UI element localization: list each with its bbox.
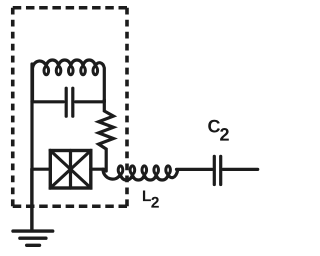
inductor L2 (coil, loops up) (103, 169, 178, 180)
label L2 subscript 2 (151, 197, 158, 208)
label C2 subscript 2 (220, 128, 229, 141)
resistor R1 (zigzag) (99, 100, 114, 171)
capacitor C1 plate 2 (71, 88, 74, 116)
inductor L1 curls (44, 67, 98, 75)
mixer box with X (diode ring) (50, 151, 91, 189)
mixer box center vertical (69, 151, 72, 189)
dashed enclosure box bottom edge (13, 204, 127, 208)
capacitor C1 plate 1 (65, 88, 68, 116)
ground bar 3 (27, 244, 40, 247)
label L2 letter L (143, 190, 151, 201)
ground bar 2 (20, 236, 46, 239)
wire left vertical bus (30, 64, 33, 231)
capacitor C2 plate 2 (219, 156, 222, 184)
mixer box diagonal 2 (50, 151, 91, 189)
dashed enclosure box left edge (11, 8, 15, 207)
label C2 letter C (208, 120, 220, 133)
wire box left (32, 168, 50, 171)
inductor L2 curls (118, 166, 170, 174)
wire box right (91, 168, 104, 171)
mixer box diagonal 1 (50, 151, 91, 189)
ground lead (30, 169, 33, 231)
dashed enclosure box top edge (13, 6, 127, 10)
dashed enclosure box right edge (125, 8, 129, 207)
capacitor C2 right wire (223, 168, 258, 171)
capacitor C1 right wire (76, 100, 105, 103)
capacitor C1 left wire (32, 100, 64, 103)
capacitor C2 plate 1 (213, 156, 216, 184)
wire L2 to C2 (177, 168, 213, 171)
inductor L1 (top coil) (33, 60, 105, 101)
ground bar 1 (13, 229, 53, 232)
